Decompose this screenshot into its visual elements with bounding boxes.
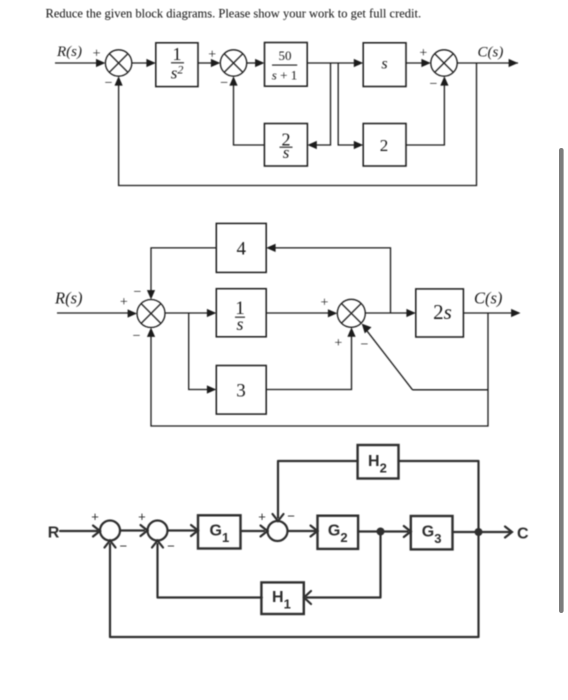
svg-text:C(s): C(s) <box>478 45 504 61</box>
svg-text:−: − <box>105 76 113 91</box>
svg-text:+: + <box>258 509 266 524</box>
svg-text:2: 2 <box>380 136 389 155</box>
svg-text:R(s): R(s) <box>54 289 83 308</box>
svg-text:2s: 2s <box>433 300 452 324</box>
svg-text:s + 1: s + 1 <box>272 68 297 83</box>
svg-text:G2: G2 <box>328 523 348 546</box>
svg-text:1: 1 <box>173 44 182 64</box>
svg-text:s: s <box>283 143 290 162</box>
svg-text:4: 4 <box>237 239 247 260</box>
svg-text:50: 50 <box>279 48 292 63</box>
svg-text:+: + <box>321 296 329 311</box>
svg-text:G3: G3 <box>422 523 442 546</box>
svg-text:+: + <box>91 509 99 524</box>
svg-text:−: − <box>220 76 228 91</box>
svg-text:−: − <box>430 77 438 92</box>
svg-text:G1: G1 <box>210 523 230 546</box>
svg-text:−: − <box>167 539 175 554</box>
svg-text:+: + <box>419 46 427 61</box>
svg-text:+: + <box>208 48 216 63</box>
svg-text:3: 3 <box>236 381 246 402</box>
svg-text:−: − <box>134 285 142 300</box>
svg-text:C(s): C(s) <box>474 289 502 308</box>
svg-text:R(s): R(s) <box>56 44 82 60</box>
svg-text:s2: s2 <box>171 63 184 83</box>
svg-text:s: s <box>381 56 387 73</box>
svg-text:R: R <box>48 525 60 542</box>
svg-text:+: + <box>138 509 146 524</box>
svg-text:+: + <box>93 47 101 62</box>
svg-text:C: C <box>517 526 529 543</box>
svg-text:−: − <box>287 509 295 524</box>
svg-text:+: + <box>120 295 128 310</box>
svg-text:Reduce the given block diagram: Reduce the given block diagrams. Please … <box>46 7 422 21</box>
svg-text:H1: H1 <box>272 589 291 612</box>
svg-text:−: − <box>361 338 369 353</box>
svg-text:−: − <box>133 329 141 344</box>
svg-text:+: + <box>334 336 342 351</box>
svg-text:H2: H2 <box>368 453 387 476</box>
svg-text:−: − <box>120 539 128 554</box>
